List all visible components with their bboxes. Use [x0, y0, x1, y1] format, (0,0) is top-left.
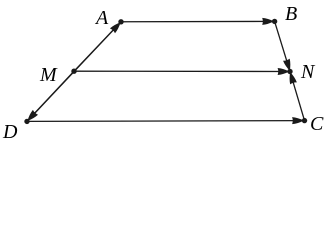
vector D->C bottom side: [27, 120, 303, 123]
vector M->A arrow: [74, 23, 120, 71]
vector M->D arrow: [28, 71, 74, 120]
node D dot: [24, 119, 29, 124]
node N dot: [287, 69, 292, 74]
node B dot: [272, 19, 277, 24]
svg-text:A: A: [94, 7, 109, 29]
wire side DA: [27, 22, 121, 122]
vector B->N right upper: [275, 21, 290, 70]
svg-text:B: B: [285, 3, 297, 25]
vector M->N midline: [74, 70, 289, 72]
svg-text:D: D: [2, 121, 18, 143]
svg-text:N: N: [300, 61, 316, 83]
node C dot: [302, 118, 307, 123]
node A dot: [118, 19, 123, 24]
vector A->B top side: [121, 20, 273, 22]
svg-text:M: M: [39, 64, 58, 86]
node M dot: [71, 69, 76, 74]
vector C->N right lower: [290, 73, 304, 121]
svg-text:C: C: [310, 113, 324, 135]
